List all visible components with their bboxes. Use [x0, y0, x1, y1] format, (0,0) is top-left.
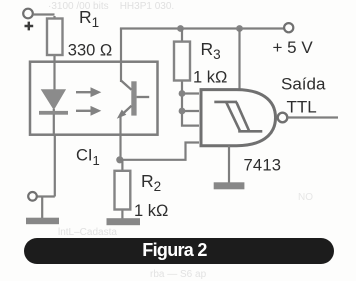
svg-text:7413: 7413 [244, 155, 282, 174]
resistor R1 [47, 16, 63, 63]
wire: collector up to +5V rail [120, 29, 122, 83]
Schmitt hysteresis symbol [214, 102, 262, 131]
terminal - (negative input) [28, 192, 37, 201]
node: rail to R3 [177, 25, 184, 32]
light arrow 1 [76, 87, 101, 97]
wire: R1 bottom to LED anode [53, 61, 55, 90]
node: emitter / R2 / gate input junction [116, 156, 123, 163]
svg-text:1 kΩ: 1 kΩ [134, 202, 168, 220]
node: input tie 2 [179, 108, 186, 115]
terminal + (positive input) [23, 9, 33, 31]
svg-text:rba — S6 ap: rba — S6 ap [150, 269, 207, 280]
resistor R3 [174, 29, 190, 95]
wire: TTL output [288, 116, 339, 118]
wire: junction to gate input 4 [120, 143, 199, 160]
wire: LED cathode to negative terminal [36, 134, 55, 197]
wire: R3 bottom to gate inputs (3 tied) [182, 93, 199, 126]
resistor R2 [115, 160, 131, 219]
svg-text:lntL–Cadasta: lntL–Cadasta [58, 227, 117, 238]
+5V rail wire [120, 27, 285, 29]
NAND Schmitt gate U1 (7413) outline [201, 90, 276, 146]
phototransistor (CI1) [117, 81, 149, 119]
node: rail to gate top [236, 25, 243, 32]
terminal +5V [284, 23, 293, 32]
svg-text:1 kΩ: 1 kΩ [193, 68, 227, 86]
wire: +5V down to gate top [238, 29, 240, 91]
svg-text:·3100 /00 bits HH3P1 030.: ·3100 /00 bits HH3P1 030. [48, 1, 174, 12]
optocoupler CI1 body [30, 62, 158, 135]
ground (gate) [214, 182, 245, 189]
svg-text:NO: NO [298, 192, 313, 203]
wire: emitter down to junction [119, 115, 121, 160]
svg-text:Figura 2: Figura 2 [142, 240, 207, 260]
node: input tie 1 [179, 90, 186, 97]
wire: gate pin to ground [228, 146, 230, 183]
LED inside CI1 [39, 90, 68, 136]
svg-text:+ 5 V: + 5 V [273, 38, 314, 57]
ground (input side) [26, 218, 59, 225]
output bubble [278, 113, 288, 123]
wire: terminal to R1 top [33, 13, 55, 15]
wire: ground stub (input side) [41, 198, 43, 219]
svg-text:Saída: Saída [281, 74, 326, 93]
svg-text:330 Ω: 330 Ω [68, 41, 112, 59]
ground (R2) [107, 218, 141, 225]
figure caption bar [24, 238, 334, 264]
light arrow 2 [76, 106, 101, 116]
svg-text:TTL: TTL [287, 97, 317, 116]
